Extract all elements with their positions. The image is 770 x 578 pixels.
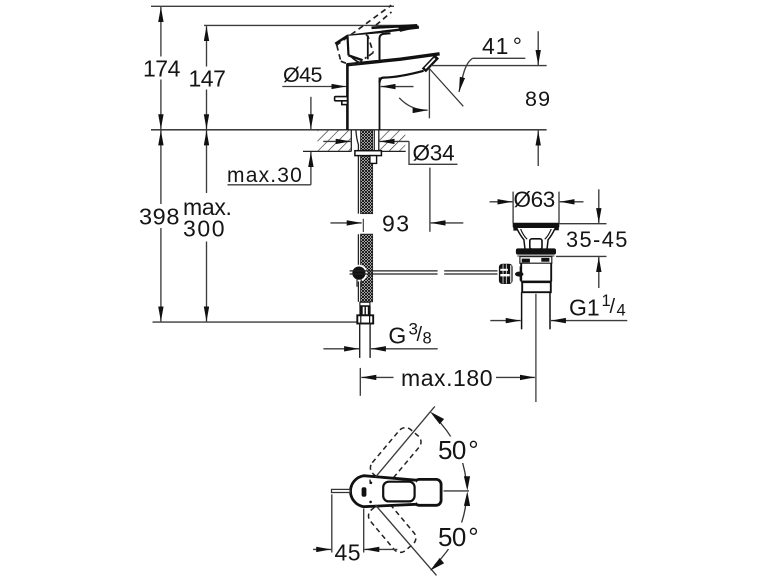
top view: dashed lever rotated -50: [365, 498, 419, 555]
svg-text:174: 174: [143, 56, 181, 82]
threaded shank with hoses (upper): [356, 130, 374, 213]
top view: pull rod: [332, 489, 351, 492]
top view: -50 diagonal: [375, 505, 436, 575]
svg-text:Ø34: Ø34: [413, 141, 455, 166]
top view: +50 diagonal: [375, 406, 434, 477]
svg-text:45: 45: [335, 540, 362, 566]
faucet spout underside: [380, 71, 424, 83]
dimension 93: [330, 211, 463, 237]
label G 3/8 with arrows: [323, 320, 437, 349]
drain waste center tab: [530, 239, 542, 249]
svg-text:50°: 50°: [438, 435, 478, 465]
top view: horizontal centerline: [444, 490, 470, 492]
spout tip horizontal reference line: [431, 65, 547, 67]
mounting nut under countertop: [355, 151, 382, 164]
label 50 degrees lower: [435, 522, 482, 552]
dimension max.180: [360, 365, 535, 396]
faucet lever raised position dashed grip lines: [336, 5, 392, 49]
drain waste slotted ring: [520, 257, 552, 264]
drain waste locknut: [521, 282, 551, 293]
top view: upper 50 degree arc: [430, 412, 470, 491]
pop-up rod horizontal: [350, 271, 498, 274]
faucet lever raised position dashed knuckle: [337, 34, 374, 64]
spout tip extension line (93/Ø34): [429, 168, 431, 232]
supply pipe G3-8: [360, 323, 370, 358]
pop-up rod ball joint: [351, 265, 368, 287]
svg-text:50°: 50°: [438, 522, 478, 552]
pop-up rod knurled knob: [499, 264, 513, 284]
svg-text:Ø63: Ø63: [514, 187, 555, 212]
countertop cross-section hatching: [303, 130, 406, 152]
drain waste neck: [517, 229, 555, 253]
dimension 45 (top view): [313, 494, 397, 565]
dimension extension line 147 reference: [204, 24, 417, 26]
drain waste flange: [516, 248, 556, 256]
drain waste tailpipe: [522, 292, 550, 329]
dimension 89: [525, 31, 551, 166]
dimension extension line bottom (398 reference): [153, 321, 373, 323]
spout angle diagonal line: [430, 69, 464, 106]
top view: lower 50 degree arc: [430, 491, 470, 570]
dimension 398: [139, 130, 180, 321]
hose end fitting / G3-8 connector nut: [357, 302, 373, 323]
pop-up rod clamp screw: [515, 266, 523, 280]
drain centerline / max180 right extension: [535, 294, 537, 402]
svg-text:Ø45: Ø45: [283, 63, 322, 87]
svg-text:G1: G1: [569, 295, 600, 321]
pull rod segment in hose gap: [362, 219, 364, 232]
label 41 degrees with leader: [399, 33, 525, 110]
flexible hose (lower): [358, 234, 372, 302]
dimension max.30: [227, 97, 311, 187]
svg-text:300: 300: [183, 215, 226, 241]
svg-text:93: 93: [382, 211, 410, 237]
top view: dashed lever rotated +50: [367, 424, 424, 485]
svg-text:41°: 41°: [482, 33, 523, 59]
spout tip vertical reference line: [428, 68, 430, 119]
label Ø34 with arrows: [323, 141, 457, 166]
drain waste plug cap rim: [513, 223, 560, 231]
dimension 147: [189, 26, 226, 129]
svg-text:35-45: 35-45: [566, 227, 629, 252]
label Ø45 with arrows: [282, 63, 413, 87]
svg-text:/: /: [610, 296, 616, 318]
dimension max.300: [183, 130, 232, 321]
svg-text:max.180: max.180: [401, 365, 493, 391]
svg-text:max.30: max.30: [227, 164, 303, 187]
faucet body right edge: [379, 78, 381, 130]
svg-text:8: 8: [423, 330, 432, 348]
dimension 35-45: [556, 189, 629, 288]
drain waste body: [521, 263, 551, 281]
label 50 degrees upper: [435, 435, 482, 465]
faucet lever knuckle (solid position): [335, 34, 368, 63]
svg-text:398: 398: [139, 204, 180, 230]
faucet spout top edge: [347, 54, 440, 65]
faucet body left edge: [346, 64, 349, 130]
dimension extension line top (174 reference): [151, 5, 394, 7]
svg-text:89: 89: [525, 87, 551, 111]
faucet lever grip blade (solid position): [347, 25, 419, 36]
svg-text:147: 147: [189, 65, 226, 91]
faucet spout aerator: [424, 57, 437, 71]
faucet handle neck: [368, 33, 391, 60]
svg-text:G: G: [388, 323, 406, 349]
faucet waste actuator knob: [335, 97, 348, 105]
drain waste: Ø63 dimension: [490, 187, 584, 224]
svg-text:4: 4: [617, 302, 626, 320]
label G1 1/4 with arrows: [490, 292, 627, 321]
countertop top surface line: [151, 129, 547, 131]
top view: faucet body plan: [350, 476, 441, 507]
dimension 174: [143, 7, 181, 129]
